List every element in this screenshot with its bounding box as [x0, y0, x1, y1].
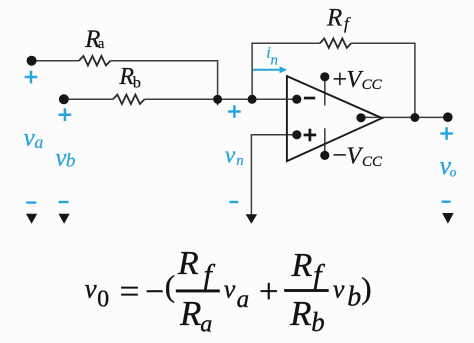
svg-text:+: + — [333, 65, 348, 94]
svg-text:o: o — [450, 166, 457, 181]
svg-text:R: R — [291, 247, 313, 284]
svg-text:b: b — [311, 307, 325, 337]
svg-text:a: a — [98, 36, 105, 52]
svg-text:b: b — [66, 150, 76, 171]
svg-text:−: − — [332, 141, 347, 170]
svg-text:−: − — [145, 273, 164, 310]
svg-text:a: a — [237, 286, 250, 313]
svg-text:0: 0 — [97, 287, 109, 313]
svg-text:v: v — [85, 274, 97, 304]
svg-text:R: R — [177, 245, 199, 282]
svg-text:=: = — [120, 272, 140, 311]
svg-text:a: a — [34, 132, 43, 152]
svg-text:v: v — [224, 275, 236, 304]
svg-text:v: v — [333, 275, 345, 304]
svg-text:CC: CC — [362, 77, 383, 93]
svg-text:n: n — [271, 53, 279, 69]
svg-text:n: n — [236, 153, 244, 169]
svg-text:R: R — [326, 4, 342, 31]
svg-text:b: b — [133, 74, 141, 91]
svg-text:CC: CC — [362, 154, 383, 170]
svg-text:+: + — [259, 272, 279, 311]
svg-text:): ) — [361, 270, 371, 305]
svg-text:R: R — [179, 294, 201, 333]
svg-text:b: b — [347, 281, 361, 312]
svg-text:(: ( — [165, 269, 175, 304]
svg-text:V: V — [347, 144, 364, 170]
svg-text:R: R — [289, 294, 311, 333]
svg-text:v: v — [225, 143, 236, 169]
svg-text:a: a — [200, 312, 212, 338]
